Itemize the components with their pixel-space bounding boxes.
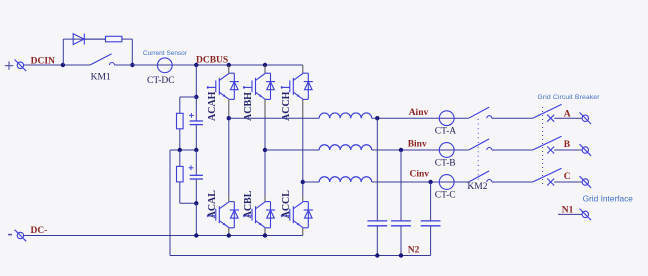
svg-text:ACCH: ACCH [281,91,292,121]
wire C1 top lead [195,97,197,121]
node phase B tap [263,148,267,152]
node DC- cap bank [194,233,198,237]
wire emitter stub ACBL [264,228,266,236]
wire phase leg B [264,118,266,196]
transistor ACCH IGBT [281,73,313,99]
terminal grid N1 [580,209,592,221]
node KM1 right [130,63,134,67]
node filter cap C tap [428,180,432,184]
current sensor CT-C [439,175,454,190]
node DCBUS phase A leg [227,63,231,67]
terminal grid B [580,144,592,156]
svg-text:KM1: KM1 [91,72,111,82]
breaker pole C contact [547,179,554,186]
wire R2 bottom lead [179,129,181,150]
node KM1 left [61,63,65,67]
resistor R2 bleeder [177,113,184,129]
switch KM2 pole B blade [469,139,490,150]
breaker pole B blade [533,136,562,150]
wire emitter stub ACAH [228,99,230,117]
node DCBUS cap tap [194,63,198,67]
node phase C tap [301,180,305,184]
node N2 cap A [375,253,379,257]
wire diode to resistor [84,38,105,40]
wire collector stub ACCH [302,65,304,73]
svg-text:DCBUS: DCBUS [196,55,228,65]
svg-text:A: A [564,110,571,120]
diode D1 precharge [73,34,84,45]
transistor ACAH IGBT [207,73,239,99]
svg-text:N2: N2 [408,245,420,255]
transistor ACBL IGBT [243,202,275,228]
wire filter cap B bottom lead [400,226,402,256]
breaker pole B contact [547,147,554,154]
wire emitter stub ACBH [264,99,266,117]
terminal DC- input [8,234,12,236]
svg-text:ACBH: ACBH [243,92,254,121]
current sensor CT-DC [157,58,172,73]
wire filter cap C bottom lead [430,226,432,256]
wire R3 top lead [179,150,181,166]
wire KM2 to breaker B [492,149,533,151]
wire bypass right riser [131,39,133,65]
capacitor C2 dclink [189,165,194,170]
node filter cap B tap [399,148,403,152]
breaker pole A contact [547,115,554,122]
current sensor CT-A [439,111,454,126]
inductor LC [319,177,372,182]
node DC- leg A [227,233,231,237]
wire collector stub ACCL [302,196,304,202]
terminal grid A [580,112,592,124]
svg-text:CT-B: CT-B [435,158,456,168]
svg-text:DC-: DC- [31,226,48,236]
wire cap bank bottom jog [180,202,197,204]
breaker pole A blade [533,104,562,118]
wire R2 top lead [179,97,181,113]
node N2 cap B [399,253,403,257]
node mid jog R [178,148,182,152]
wire inductor B to KM2 [372,149,469,151]
wire breaker to grid A [554,117,582,119]
wire N1 stub [558,213,582,215]
svg-text:Grid Interface: Grid Interface [583,193,634,203]
svg-text:ACAH: ACAH [207,91,218,121]
wire N2 drop from midpoint [169,150,171,256]
wire breaker to grid B [554,149,582,151]
wire emitter stub ACCL [302,228,304,236]
wire collector stub ACAH [228,65,230,73]
wire C2 top lead [195,150,197,175]
wire breaker to grid C [554,181,582,183]
wire phase leg A [228,118,230,196]
wire C1 bottom lead [195,125,197,150]
switch KM2 pole C blade [469,171,490,182]
wire emitter stub ACAL [228,228,230,236]
node bottom jog [194,201,198,205]
svg-text:KM2: KM2 [467,182,487,192]
transistor ACAL IGBT [207,202,239,228]
wire phase C to inductor [303,181,319,183]
current sensor CT-B [439,143,454,158]
wire phase A to inductor [229,117,319,119]
wire R3 bottom lead [179,182,181,203]
wire cap bank to DC- rail [195,203,197,235]
wire phase leg C [302,118,304,196]
wire filter cap C top lead [430,182,432,221]
resistor R3 bleeder [177,166,184,182]
svg-text:Current Sensor: Current Sensor [143,50,188,57]
switch KM1 contact [110,63,115,66]
switch KM2 pole B contact [487,148,492,151]
wire DC+ to KM1 [23,64,90,66]
svg-text:ACAL: ACAL [207,190,218,219]
svg-text:Ainv: Ainv [409,108,429,118]
wire N2 bus [170,255,431,257]
wire collector stub ACBL [264,196,266,202]
switch KM1 blade [90,54,112,65]
wire collector stub ACBH [264,65,266,73]
svg-text:Grid Circuit Breaker: Grid Circuit Breaker [538,94,601,101]
wire bypass left riser [62,39,64,65]
wire cap bank mid jog [170,149,196,151]
node cap bank top [194,95,198,99]
svg-text:Cinv: Cinv [410,170,430,180]
wire DC- rail [23,235,302,237]
terminal DC+ input [5,61,13,69]
transistor ACCL IGBT [281,202,313,228]
wire KM2 to breaker A [492,117,533,119]
node filter cap A tap [375,116,379,120]
wire filter cap A bottom lead [376,226,378,256]
node DC- leg B [263,233,267,237]
capacitor CA filter [367,221,387,226]
wire filter cap A top lead [376,118,378,221]
capacitor CB filter [391,221,411,226]
svg-text:ACCL: ACCL [281,190,292,219]
transistor ACBH IGBT [243,73,275,99]
resistor R1 precharge [106,36,122,42]
switch KM2 pole C contact [487,180,492,183]
terminal grid C [580,176,592,188]
switch KM2 pole A contact [487,116,492,119]
capacitor C1 dclink [189,113,194,118]
wire inductor A to KM2 [372,117,469,119]
node mid jog C [194,148,198,152]
node DCBUS phase B leg [263,63,267,67]
switch KM2 pole A blade [469,107,490,118]
wire bypass top left [63,38,105,40]
breaker pole C blade [533,168,562,182]
svg-text:Binv: Binv [408,140,427,150]
wire KM2 to breaker C [492,181,533,183]
svg-text:B: B [564,140,571,150]
svg-text:ACBL: ACBL [243,190,254,218]
wire filter cap B top lead [400,150,402,221]
svg-text:C: C [564,172,571,182]
svg-text:CT-A: CT-A [435,127,456,137]
svg-text:CT-DC: CT-DC [147,76,175,86]
linkage breaker dotted [542,107,544,186]
wire resistor to riser [122,38,132,40]
inductor LB [319,145,372,150]
svg-text:CT-C: CT-C [435,190,456,200]
wire phase B to inductor [265,149,319,151]
wire emitter stub ACCH [302,99,304,117]
wire C2 bottom lead [195,179,197,203]
node phase A tap [227,116,231,120]
wire KM1 to CT-DC [115,64,303,66]
inductor LA [319,113,372,118]
wire collector stub ACAL [228,196,230,202]
wire inductor C to KM2 [372,181,469,183]
linkage KM2 dotted [477,119,479,181]
wire DCBUS drop to cap bank [195,65,197,97]
capacitor CC filter [421,221,441,226]
wire cap bank top jog [180,96,197,98]
